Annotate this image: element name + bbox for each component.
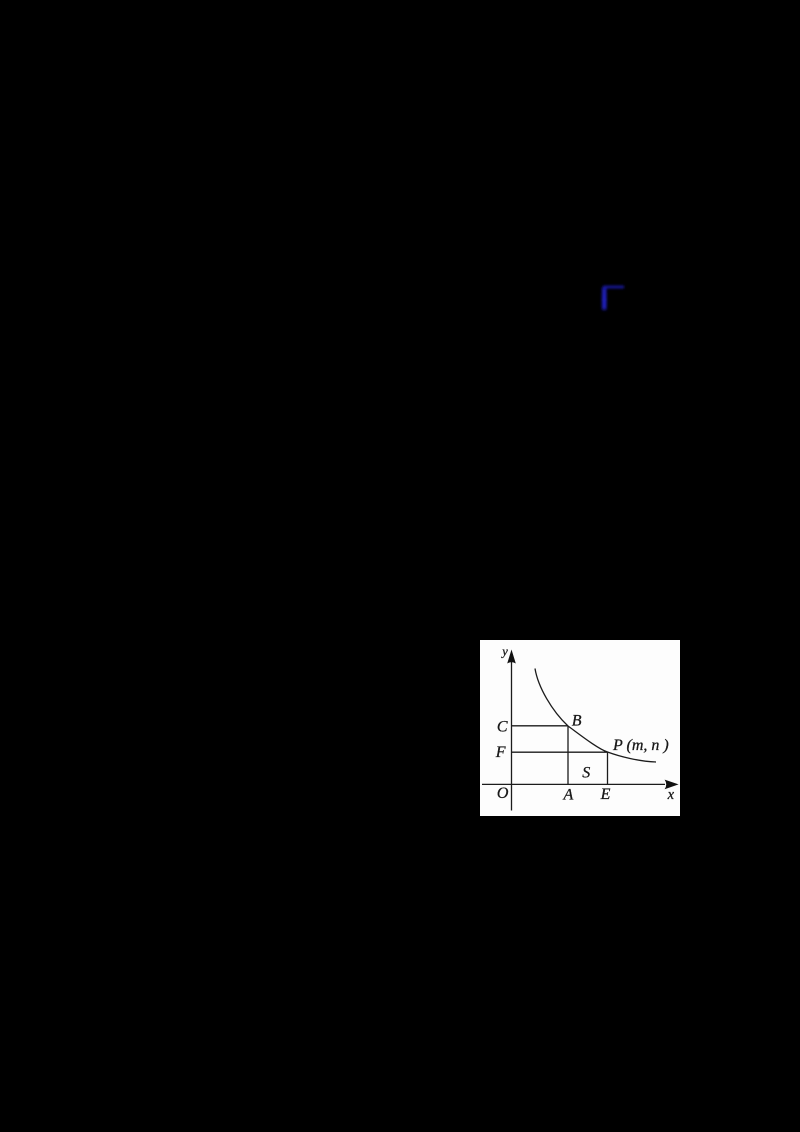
segment P-E bbox=[607, 752, 609, 784]
segment F-P bbox=[512, 751, 608, 753]
x-axis bbox=[482, 783, 665, 785]
segment C-B bbox=[512, 725, 569, 727]
svg-text:B: B bbox=[572, 712, 582, 729]
svg-text:y: y bbox=[500, 644, 508, 658]
hyperbola curve bbox=[535, 669, 656, 763]
y-axis arrowhead bbox=[507, 650, 516, 664]
blue corner mark bbox=[596, 279, 632, 319]
x-axis arrowhead bbox=[665, 780, 679, 790]
svg-text:O: O bbox=[497, 785, 509, 802]
svg-text:F: F bbox=[495, 744, 506, 761]
svg-text:x: x bbox=[667, 787, 675, 803]
svg-text:E: E bbox=[600, 786, 611, 803]
y-axis bbox=[511, 660, 513, 811]
segment B-A bbox=[567, 726, 569, 785]
svg-text:P (m, n ): P (m, n ) bbox=[612, 737, 669, 754]
svg-text:C: C bbox=[497, 719, 508, 736]
svg-text:S: S bbox=[582, 764, 590, 781]
graph panel bbox=[480, 640, 680, 816]
svg-text:A: A bbox=[563, 786, 574, 803]
